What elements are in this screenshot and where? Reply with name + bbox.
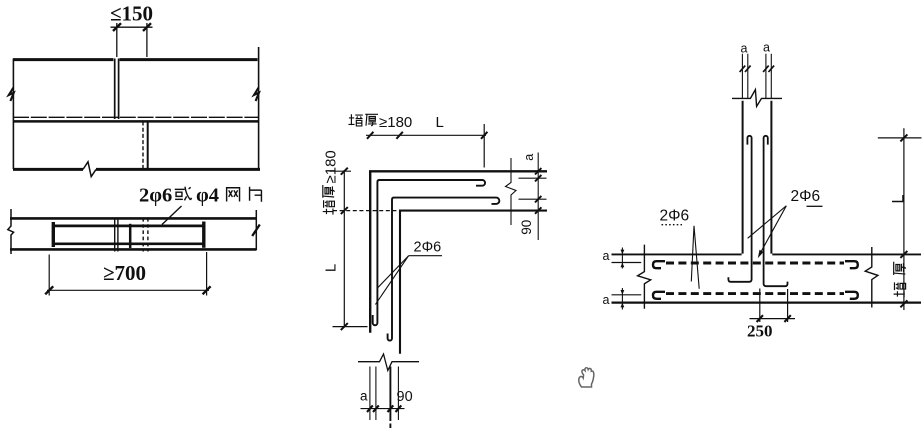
dim 700 tick left — [45, 286, 53, 294]
right arm break line — [506, 158, 517, 225]
svg-text:250: 250 — [747, 322, 773, 341]
svg-text:90: 90 — [397, 389, 413, 405]
leader sliver from left label — [691, 226, 699, 289]
svg-text:a: a — [522, 154, 536, 161]
bottom course vertical joint solid — [147, 122, 149, 169]
bottom extension b1 — [389, 367, 391, 422]
right tick line 90 — [519, 198, 547, 200]
right dim tick 1 — [900, 134, 907, 141]
left dim top tick line — [330, 170, 352, 172]
row 1 left end hook — [653, 261, 665, 268]
svg-text:2Φ6: 2Φ6 — [791, 188, 821, 205]
top dim tick 1 — [367, 132, 373, 139]
top extension lines left pair — [742, 54, 747, 98]
bottom course vertical joint dashed — [142, 122, 144, 169]
top dim line — [366, 134, 486, 136]
left dim tick 3 — [341, 323, 348, 330]
dim 700 extension left — [48, 255, 50, 296]
bottom extension a2 — [375, 367, 377, 421]
vertical wall right line — [770, 101, 772, 254]
leader line 2 to rebars — [377, 256, 408, 289]
svg-text:a: a — [603, 249, 610, 263]
joint lines solid pair in plan — [115, 218, 118, 252]
rotated a label right — [522, 154, 536, 161]
svg-text:90: 90 — [519, 220, 534, 235]
dim tick left — [113, 23, 121, 31]
right dim tick 1 — [535, 168, 541, 175]
right dim top tick line — [878, 137, 922, 139]
right dim tick 3 — [900, 300, 907, 307]
label 2Φ6 right underline — [807, 205, 823, 207]
bottom dim tick 1 — [367, 405, 373, 412]
right dim tick 2 — [535, 175, 541, 182]
label 2Φ6 underline — [409, 255, 442, 257]
left rotated label L — [323, 264, 340, 272]
horizontal wall top line — [612, 253, 922, 255]
wall bottom edge — [13, 168, 260, 171]
dim 700 tick right — [203, 286, 211, 294]
svg-text:≤150: ≤150 — [110, 2, 153, 26]
plan right break slash — [252, 225, 260, 237]
dim line 700 — [47, 289, 209, 291]
mesh left end crossbar — [52, 222, 55, 247]
left dim line — [343, 170, 345, 328]
dim 250 extension right — [787, 289, 789, 322]
mesh bottom bar — [53, 242, 205, 245]
middle bed joint upper line — [13, 116, 259, 118]
left a arrows top — [621, 248, 623, 269]
left a extension line top — [612, 262, 642, 264]
leader line 1 to rebars — [375, 256, 408, 305]
mesh right end crossbar — [202, 222, 205, 248]
left edge break mark — [9, 88, 14, 102]
svg-text:≥180: ≥180 — [323, 150, 340, 183]
left dowel bar with top hook and bottom foot — [728, 136, 751, 282]
svg-text:L: L — [890, 194, 908, 203]
wall top edge — [13, 58, 258, 61]
wall left edge — [12, 59, 14, 170]
left dim dashed tick line — [333, 210, 399, 212]
mesh middle crossbar — [129, 224, 132, 248]
svg-text:φ4: φ4 — [196, 185, 219, 207]
bottom dim tick 3 — [388, 405, 394, 412]
left dim tick 1 — [341, 168, 348, 175]
svg-text:a: a — [603, 293, 610, 307]
top break line — [732, 90, 782, 107]
bottom edge break zigzag — [83, 162, 96, 177]
slash ticks left pair — [740, 66, 751, 72]
dim 700 extension right — [206, 252, 208, 296]
bottom dim tick 4 — [396, 405, 402, 412]
vertical wall left line — [742, 101, 744, 254]
svg-text:L: L — [323, 264, 340, 272]
rebar 1 (outer) with hooks — [373, 180, 485, 325]
top dim right extension — [483, 124, 485, 168]
right dim tick 3 — [535, 196, 541, 203]
right dim tick 2 — [900, 251, 907, 258]
right dim line — [537, 153, 539, 241]
right dowel bar with top hook and bottom foot — [764, 136, 788, 286]
row 2 left end hook — [653, 292, 665, 299]
bottom dim line — [361, 408, 405, 410]
svg-text:a: a — [360, 389, 368, 404]
dim 250 tick right — [784, 315, 790, 322]
dim tick right — [143, 23, 151, 31]
left dim tick 2 — [341, 207, 348, 214]
wall right edge — [258, 47, 260, 171]
right edge break mark — [254, 88, 259, 102]
slash ticks right pair — [763, 66, 774, 72]
dashed mesh row 1 — [666, 262, 844, 265]
leader 1 from right label — [748, 206, 787, 239]
bottom extension a1 — [369, 367, 371, 421]
top course vertical joint — [115, 59, 119, 120]
bottom break line — [358, 354, 419, 371]
leader 2 from right label with arrow — [761, 206, 786, 252]
right dim line vertical — [903, 128, 905, 310]
plan wall top line — [10, 217, 257, 220]
joint lines dashed pair in plan — [143, 218, 148, 252]
dashed mesh row 2 — [666, 292, 844, 295]
horizontal wall right break — [865, 247, 878, 308]
left a arrows bottom — [621, 288, 623, 310]
svg-text:≥180: ≥180 — [379, 114, 412, 131]
svg-text:2Φ6: 2Φ6 — [660, 208, 690, 225]
right tick line a — [519, 177, 547, 179]
svg-text:2φ6: 2φ6 — [139, 185, 172, 207]
svg-text:≥700: ≥700 — [103, 261, 146, 285]
left rotated label 墙厚≥180 — [323, 150, 340, 214]
bottom dim tick 2 — [373, 405, 379, 412]
mesh top bar — [53, 225, 205, 228]
plan wall right break — [255, 210, 257, 250]
right dim tick 4 — [535, 207, 541, 214]
inner wall corner line — [400, 211, 547, 354]
rebar 2 (inner) with hooks — [388, 198, 500, 341]
horizontal wall left break — [638, 245, 651, 309]
top label 墙厚≥180 — [348, 114, 412, 131]
plan wall left break — [8, 209, 14, 254]
plan wall bottom line — [10, 248, 257, 251]
rotated 墙厚 label right — [894, 262, 906, 297]
rotated L label right — [890, 194, 908, 203]
top extension lines right pair — [766, 54, 771, 98]
row 1 right end hook — [845, 261, 858, 268]
dim line 150 — [111, 26, 153, 28]
row 2 right end hook — [845, 292, 858, 299]
hand cursor icon — [579, 368, 594, 387]
extension line right of 150 — [146, 23, 148, 57]
small mark below — [389, 424, 391, 429]
top dim tick 3 — [481, 132, 487, 139]
left dim bottom tick line — [333, 326, 368, 328]
dim 250 extension left — [759, 289, 761, 323]
dim line 250 — [750, 318, 796, 320]
label 2φ6或φ4网片 — [139, 185, 261, 207]
outer wall corner line — [370, 171, 547, 332]
svg-text:L: L — [436, 114, 444, 131]
leader line from mesh label — [162, 206, 182, 225]
bottom extension b2 — [397, 367, 399, 421]
horizontal wall bottom line — [612, 301, 922, 303]
label 2Φ6 left dotted underline — [662, 224, 683, 226]
extension line left of 150 — [116, 23, 118, 57]
svg-text:a: a — [741, 42, 748, 56]
svg-text:2Φ6: 2Φ6 — [414, 240, 442, 256]
top dim tick 2 — [396, 132, 402, 139]
dim 250 tick left — [757, 315, 763, 322]
middle bed joint lower line — [13, 120, 259, 123]
left a extension line bottom — [612, 294, 642, 296]
rotated 90 label right — [519, 220, 534, 235]
svg-text:a: a — [763, 41, 770, 55]
